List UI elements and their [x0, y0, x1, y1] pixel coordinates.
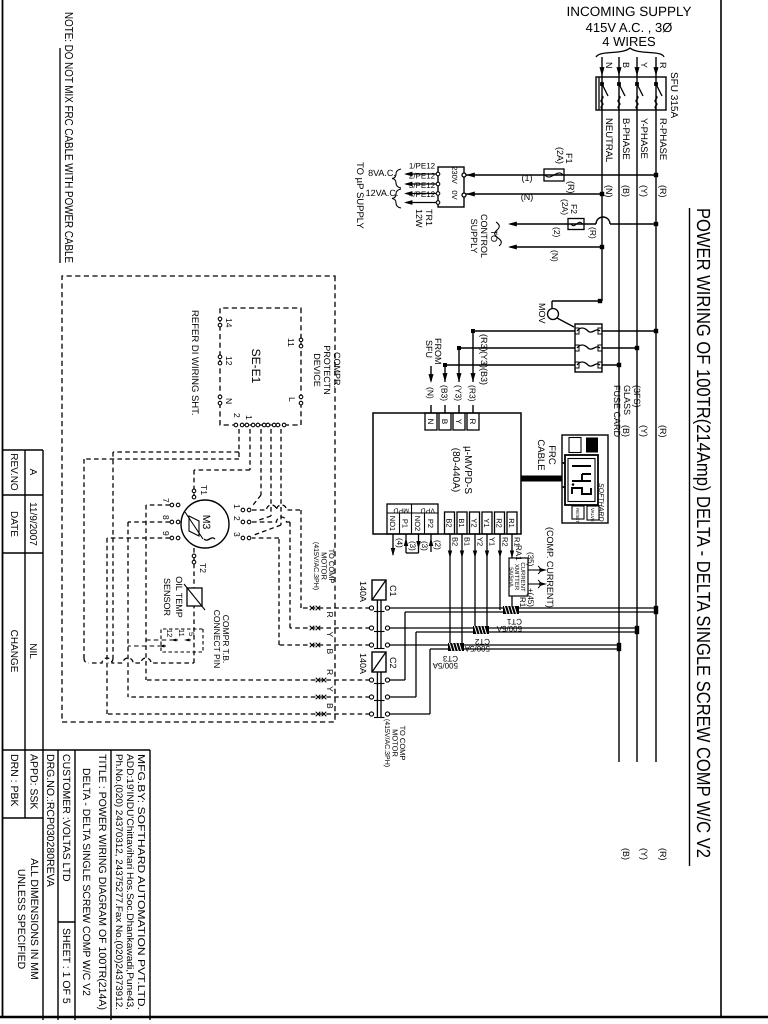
svg-text:5: 5: [187, 632, 196, 636]
svg-text:NO1: NO1: [388, 516, 397, 531]
svg-text:CONNECT PIN: CONNECT PIN: [212, 610, 222, 668]
svg-text:3/PE12: 3/PE12: [409, 181, 436, 190]
svg-text:4/PE12: 4/PE12: [409, 190, 436, 199]
svg-text:A: A: [27, 469, 38, 476]
svg-text:RESET: RESET: [575, 508, 580, 523]
svg-text:12VA.C.: 12VA.C.: [366, 188, 399, 198]
svg-text:(Y): (Y): [639, 425, 649, 437]
svg-text:1: 1: [232, 504, 242, 509]
svg-text:(N): (N): [521, 192, 534, 202]
svg-text:500/5A: 500/5A: [432, 661, 458, 670]
svg-text:Y1: Y1: [488, 537, 497, 546]
svg-text:µ-MVPD-S: µ-MVPD-S: [462, 446, 473, 494]
svg-text:R-PHASE: R-PHASE: [657, 118, 668, 160]
svg-text:NEUTRAL: NEUTRAL: [603, 118, 614, 162]
svg-text:(2A): (2A): [555, 147, 565, 164]
svg-text:POWER WIRING OF 100TR(214Amp): POWER WIRING OF 100TR(214Amp) DELTA - DE…: [692, 208, 713, 858]
svg-text:11: 11: [177, 629, 186, 637]
svg-text:R2: R2: [495, 518, 504, 528]
svg-text:ADD:19'INDU'Chittavihari Hos.S: ADD:19'INDU'Chittavihari Hos.Soc.Dhankaw…: [124, 754, 135, 1010]
svg-text:Y-PHASE: Y-PHASE: [638, 118, 649, 159]
svg-text:500/5A: 500/5A: [496, 624, 522, 633]
svg-text:T2: T2: [198, 563, 208, 573]
svg-text:(80-440A): (80-440A): [450, 448, 461, 492]
svg-text:NO2: NO2: [413, 516, 422, 531]
svg-text:140A: 140A: [358, 581, 368, 602]
svg-text:DRN : PBK: DRN : PBK: [8, 754, 20, 807]
svg-text:(R): (R): [658, 848, 668, 861]
svg-text:Ph.No.(020) 24370312, 24375277: Ph.No.(020) 24370312, 24375277.Fax No.(0…: [113, 754, 124, 1010]
svg-text:R: R: [468, 419, 477, 425]
svg-text:1/PE12: 1/PE12: [409, 162, 436, 171]
svg-text:(Y): (Y): [639, 848, 649, 860]
svg-text:12W: 12W: [414, 209, 424, 228]
svg-text:7: 7: [161, 498, 171, 503]
svg-text:12: 12: [165, 629, 174, 637]
svg-text:2: 2: [232, 516, 242, 521]
svg-text:TR1: TR1: [424, 209, 434, 226]
svg-text:11/9/2007: 11/9/2007: [27, 502, 38, 546]
svg-text:2/PE12: 2/PE12: [409, 172, 436, 181]
svg-text:(35): (35): [526, 552, 535, 567]
svg-text:(3): (3): [408, 541, 417, 551]
svg-text:(B): (B): [621, 848, 631, 860]
svg-text:B: B: [621, 62, 631, 68]
svg-text:(2): (2): [433, 540, 442, 550]
svg-text:CHANGE: CHANGE: [8, 630, 19, 673]
svg-text:FROM: FROM: [433, 338, 443, 365]
svg-text:Y: Y: [639, 62, 649, 68]
svg-text:(1): (1): [522, 173, 533, 183]
svg-text:DRG.NO.:RCP030280REVA: DRG.NO.:RCP030280REVA: [44, 754, 56, 887]
svg-text:N: N: [426, 419, 435, 425]
svg-text:F2: F2: [569, 204, 579, 214]
svg-text:415V A.C. , 3Ø: 415V A.C. , 3Ø: [586, 20, 673, 35]
svg-text:INCOMING SUPPLY: INCOMING SUPPLY: [566, 4, 691, 19]
svg-text:R2: R2: [501, 537, 510, 547]
svg-text:GLASS: GLASS: [622, 385, 632, 415]
svg-text:(4): (4): [395, 538, 404, 548]
svg-text:P2: P2: [426, 519, 435, 528]
svg-text:RA1: RA1: [514, 545, 523, 561]
svg-text:(B): (B): [621, 425, 631, 437]
svg-text:(Y): (Y): [639, 185, 649, 197]
svg-text:+(45): +(45): [526, 588, 535, 607]
svg-text:(COMP. CURRENT): (COMP. CURRENT): [545, 527, 555, 608]
svg-text:14: 14: [224, 318, 234, 328]
svg-text:SFU 315A: SFU 315A: [668, 72, 679, 118]
svg-text:NOTE: DO NOT MIX FRC CABLE WIT: NOTE: DO NOT MIX FRC CABLE WITH POWER CA…: [62, 12, 74, 263]
svg-text:R: R: [325, 669, 335, 675]
svg-text:CURRENT: CURRENT: [519, 562, 526, 592]
svg-text:SUPPLY: SUPPLY: [469, 219, 479, 254]
svg-text:B1: B1: [457, 518, 466, 527]
svg-text:(Y3): (Y3): [479, 351, 489, 368]
svg-text:T1: T1: [199, 485, 209, 495]
svg-text:B2: B2: [451, 537, 460, 546]
svg-text:(R): (R): [588, 227, 598, 239]
svg-text:DATE: DATE: [8, 511, 19, 537]
svg-text:Y2: Y2: [470, 518, 479, 527]
svg-text:(Y3): (Y3): [454, 385, 464, 401]
svg-text:(B3): (B3): [440, 385, 450, 401]
svg-text:1: 1: [244, 415, 254, 420]
svg-text:C1: C1: [388, 585, 398, 597]
svg-text:(R3): (R3): [479, 334, 489, 352]
svg-text:DEVICE: DEVICE: [312, 353, 322, 387]
svg-text:MPD: MPD: [393, 507, 409, 514]
svg-text:(2A): (2A): [560, 199, 570, 215]
svg-text:CABLE: CABLE: [535, 439, 546, 470]
svg-text:Y2: Y2: [476, 537, 485, 546]
svg-text:XMITTER: XMITTER: [513, 564, 520, 591]
svg-text:Y: Y: [325, 686, 335, 692]
svg-text:12: 12: [224, 356, 234, 366]
svg-text:B1: B1: [463, 537, 472, 546]
svg-text:(R): (R): [566, 181, 576, 194]
svg-text:OIL TEMP: OIL TEMP: [174, 576, 184, 618]
svg-text:B2: B2: [445, 518, 454, 527]
svg-text:MOTOR: MOTOR: [391, 729, 400, 757]
svg-text:Y: Y: [325, 632, 335, 638]
svg-text:SHEET : 1 OF 5: SHEET : 1 OF 5: [60, 928, 72, 1004]
svg-text:M3: M3: [200, 515, 212, 530]
svg-text:(N): (N): [604, 185, 614, 198]
svg-text:(415V/AC.3PH): (415V/AC.3PH): [312, 542, 320, 590]
svg-text:CONTROL: CONTROL: [479, 214, 489, 258]
svg-text:MFG.BY: SOFTHARD AUTOMATION PV: MFG.BY: SOFTHARD AUTOMATION PVT.LTD.: [135, 754, 146, 1010]
svg-text:UNLESS SPECIFIED: UNLESS SPECIFIED: [15, 869, 27, 970]
svg-text:(N): (N): [426, 387, 436, 399]
svg-text:N: N: [224, 398, 234, 404]
svg-text:CUSTOMER :VOLTAS LTD: CUSTOMER :VOLTAS LTD: [60, 754, 72, 882]
svg-text:B: B: [325, 649, 335, 655]
svg-text:NIL: NIL: [27, 643, 38, 659]
svg-text:(3): (3): [420, 541, 429, 551]
svg-text:TO: TO: [489, 230, 499, 242]
svg-text:COMPR T.B.: COMPR T.B.: [221, 615, 231, 664]
svg-text:L: L: [287, 397, 297, 402]
svg-text:500/5A: 500/5A: [464, 644, 490, 653]
svg-text:Y1: Y1: [482, 518, 491, 527]
svg-text:FRC: FRC: [546, 445, 557, 465]
svg-text:SENSOR: SENSOR: [162, 578, 172, 617]
svg-text:5A/5mA: 5A/5mA: [508, 567, 514, 587]
svg-text:(B3): (B3): [479, 368, 489, 385]
svg-text:DELTA - DELTA SINGLE SCREW COM: DELTA - DELTA SINGLE SCREW COMP W/C V2: [80, 768, 92, 996]
svg-text:(N): (N): [550, 250, 560, 262]
svg-text:2: 2: [232, 413, 242, 418]
svg-text:(B): (B): [621, 185, 631, 197]
svg-text:(R): (R): [658, 185, 668, 198]
svg-text:SE-E1: SE-E1: [249, 349, 263, 384]
svg-text:REFER DI WIRING SHT.: REFER DI WIRING SHT.: [189, 310, 200, 416]
svg-text:MOTOR: MOTOR: [320, 552, 329, 580]
svg-text:TITLE : POWER WIRING DIAGRAM O: TITLE : POWER WIRING DIAGRAM OF 100TR(21…: [96, 754, 108, 1010]
svg-text:(415V/AC.3PH): (415V/AC.3PH): [383, 719, 391, 767]
svg-text:VALVE: VALVE: [590, 508, 595, 522]
svg-text:3: 3: [232, 532, 242, 537]
svg-text:VPD: VPD: [421, 507, 435, 514]
svg-text:C2: C2: [388, 657, 398, 669]
svg-text:REV.NO: REV.NO: [8, 453, 19, 491]
svg-text:PROTECTN: PROTECTN: [322, 345, 332, 395]
svg-text:Y: Y: [454, 419, 463, 425]
svg-text:FUSE CARD: FUSE CARD: [612, 385, 622, 438]
svg-text:9: 9: [161, 531, 171, 536]
svg-text:SFU: SFU: [424, 340, 434, 358]
svg-text:P1: P1: [401, 519, 410, 528]
svg-text:B: B: [325, 703, 335, 709]
svg-text:B-PHASE: B-PHASE: [620, 118, 631, 160]
svg-text:230V: 230V: [450, 166, 459, 184]
svg-text:TO µP SUPPLY: TO µP SUPPLY: [354, 162, 365, 229]
svg-text:ALL DIMENSIONS IN MM: ALL DIMENSIONS IN MM: [28, 858, 40, 980]
svg-text:R: R: [325, 612, 335, 618]
svg-text:APPD: SSK: APPD: SSK: [28, 754, 40, 809]
svg-text:N: N: [604, 62, 614, 69]
svg-text:MOV: MOV: [537, 303, 547, 324]
svg-text:4 WIRES: 4 WIRES: [602, 34, 656, 49]
svg-text:R1: R1: [507, 518, 516, 528]
svg-text:F1: F1: [564, 153, 574, 164]
svg-text:8VA.C.: 8VA.C.: [368, 168, 396, 178]
svg-text:140A: 140A: [358, 653, 368, 674]
svg-text:(R3): (R3): [468, 385, 478, 402]
svg-text:8: 8: [161, 515, 171, 520]
svg-text:(3FS): (3FS): [632, 385, 642, 408]
svg-text:R: R: [658, 62, 668, 69]
svg-text:B: B: [440, 419, 449, 424]
svg-text:0V: 0V: [450, 190, 459, 199]
svg-text:(2): (2): [552, 227, 562, 238]
svg-text:COMPR.: COMPR.: [332, 352, 342, 388]
svg-text:(R): (R): [658, 425, 668, 438]
svg-text:11: 11: [286, 338, 296, 347]
